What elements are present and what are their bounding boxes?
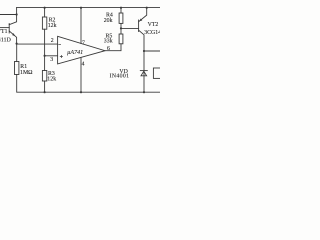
diode VD cathode bar — [140, 70, 147, 72]
op-amp U1 triangle — [58, 36, 105, 64]
resistor R1 top lead — [16, 44, 18, 62]
transistor VT1 collector — [9, 15, 16, 25]
resistor R4 top lead — [120, 8, 122, 13]
wire node D to VT2 base — [121, 27, 139, 29]
svg-text:μA741: μA741 — [67, 49, 83, 56]
resistor R2 body — [42, 17, 46, 29]
transistor VT1 emitter — [9, 31, 16, 44]
node R3-ground junction dot — [44, 91, 46, 93]
svg-text:IN4001: IN4001 — [110, 74, 130, 80]
wire top rail V+ — [17, 7, 160, 9]
resistor R1 bottom lead + bottom rail corner — [17, 75, 160, 93]
resistor R4 bottom lead — [120, 23, 122, 28]
svg-text:20k: 20k — [104, 18, 113, 24]
transistor VT2 emitter arrow — [139, 19, 142, 22]
node C divider junction dot — [44, 55, 46, 57]
transistor VT2 base bar — [138, 20, 140, 32]
wire node C to op-amp pin 3 — [45, 55, 58, 57]
transistor VT1 base bar — [8, 24, 10, 34]
op-amp U1 non-inverting sign — [60, 55, 62, 57]
resistor R2 junction dot on top rail — [44, 7, 46, 9]
node A junction dot — [16, 13, 18, 15]
wire riser from node A to top rail — [16, 8, 18, 15]
svg-text:4: 4 — [82, 62, 85, 68]
resistor R2 top lead — [44, 8, 46, 17]
diode VD triangle — [141, 71, 147, 76]
wire R2 to R3 divider column — [44, 29, 46, 70]
wire op-amp output pin 6 to R5 — [105, 44, 121, 51]
svg-text:2: 2 — [51, 38, 54, 44]
pin 4 rail junction dot — [80, 91, 82, 93]
svg-text:VT2: VT2 — [148, 22, 159, 28]
wire left input upper (cut at edge) — [0, 14, 17, 16]
svg-text:7: 7 — [82, 40, 85, 46]
resistor R1 body — [15, 62, 19, 75]
wire emitter to op-amp pin 2 — [17, 43, 58, 45]
op-amp pin 7 supply riser — [80, 8, 82, 44]
transistor VT1 emitter arrow — [12, 33, 15, 36]
resistor R3 body — [42, 71, 46, 82]
node D R4/R5 junction dot — [120, 27, 122, 29]
svg-text:1MΩ: 1MΩ — [20, 70, 33, 76]
transistor VT1 base wire (cut at edge) — [0, 27, 9, 29]
svg-text:3DG11D: 3DG11D — [0, 38, 11, 44]
svg-text:3: 3 — [50, 57, 53, 63]
resistor R5 body — [119, 34, 123, 44]
wire node E to relay (cut at edge) — [144, 50, 160, 52]
svg-text:VT1: VT1 — [0, 29, 8, 35]
transistor VT2 collector — [139, 30, 144, 92]
svg-text:12k: 12k — [47, 77, 56, 83]
node E collector junction dot — [143, 50, 145, 52]
svg-text:3CG14: 3CG14 — [144, 30, 160, 36]
resistor R3 bottom lead — [44, 81, 46, 92]
pin 7 rail junction dot — [80, 7, 82, 9]
diode-ground junction dot — [143, 91, 145, 93]
VT2 emitter rail junction dot — [146, 7, 148, 9]
node B emitter junction dot — [16, 43, 18, 45]
svg-text:R1: R1 — [20, 64, 27, 70]
R4 rail junction dot — [120, 7, 122, 9]
svg-text:33k: 33k — [104, 39, 113, 45]
svg-text:12k: 12k — [48, 23, 57, 29]
resistor R5 top lead — [120, 28, 122, 34]
resistor R4 body — [119, 13, 123, 23]
svg-text:6: 6 — [107, 46, 110, 52]
transistor VT2 emitter — [139, 8, 147, 22]
op-amp U1 inverting sign — [59, 44, 61, 46]
relay coil K box (cut at edge) — [153, 68, 162, 78]
op-amp pin 4 ground drop — [80, 58, 82, 93]
